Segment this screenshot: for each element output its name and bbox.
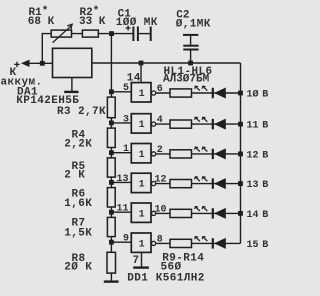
svg-text:1: 1	[139, 180, 145, 191]
svg-text:3: 3	[123, 114, 129, 125]
svg-text:1Ø В: 1Ø В	[247, 89, 269, 101]
svg-text:2Ø К: 2Ø К	[64, 262, 92, 274]
svg-text:4: 4	[157, 115, 163, 126]
svg-text:1,6К: 1,6К	[64, 198, 92, 210]
svg-text:1: 1	[139, 239, 145, 250]
svg-text:АЛ3Ø7БМ: АЛ3Ø7БМ	[163, 74, 210, 86]
svg-text:1: 1	[139, 120, 145, 131]
svg-text:12 В: 12 В	[247, 150, 269, 161]
svg-text:12: 12	[155, 175, 167, 186]
svg-text:14: 14	[127, 72, 141, 84]
svg-text:DD1: DD1	[127, 273, 148, 285]
svg-text:1: 1	[139, 150, 145, 161]
svg-text:2,2К: 2,2К	[64, 139, 92, 151]
svg-text:1: 1	[123, 144, 129, 155]
svg-text:13 В: 13 В	[247, 180, 269, 191]
svg-text:1ØØ МК: 1ØØ МК	[116, 17, 158, 29]
svg-text:R3 2,7К: R3 2,7К	[57, 106, 106, 118]
svg-text:8: 8	[157, 234, 163, 245]
svg-text:2 К: 2 К	[64, 170, 85, 182]
svg-text:10: 10	[155, 204, 167, 215]
svg-text:11 В: 11 В	[247, 121, 269, 132]
svg-text:2: 2	[157, 145, 163, 156]
svg-text:11: 11	[117, 204, 129, 215]
svg-text:Ø,1МК: Ø,1МК	[176, 18, 211, 30]
svg-text:6: 6	[157, 84, 163, 95]
svg-text:7: 7	[133, 255, 140, 267]
svg-text:1: 1	[139, 209, 145, 220]
svg-text:68 К: 68 К	[28, 16, 55, 28]
svg-text:1: 1	[139, 89, 145, 100]
svg-text:15 В: 15 В	[247, 240, 269, 251]
svg-text:9: 9	[123, 234, 129, 245]
svg-text:К561ЛН2: К561ЛН2	[156, 273, 205, 285]
svg-text:33 К: 33 К	[79, 16, 106, 28]
svg-text:1,5К: 1,5К	[64, 227, 92, 239]
svg-text:5: 5	[123, 83, 129, 94]
svg-text:14 В: 14 В	[247, 210, 269, 221]
svg-text:13: 13	[117, 174, 129, 185]
